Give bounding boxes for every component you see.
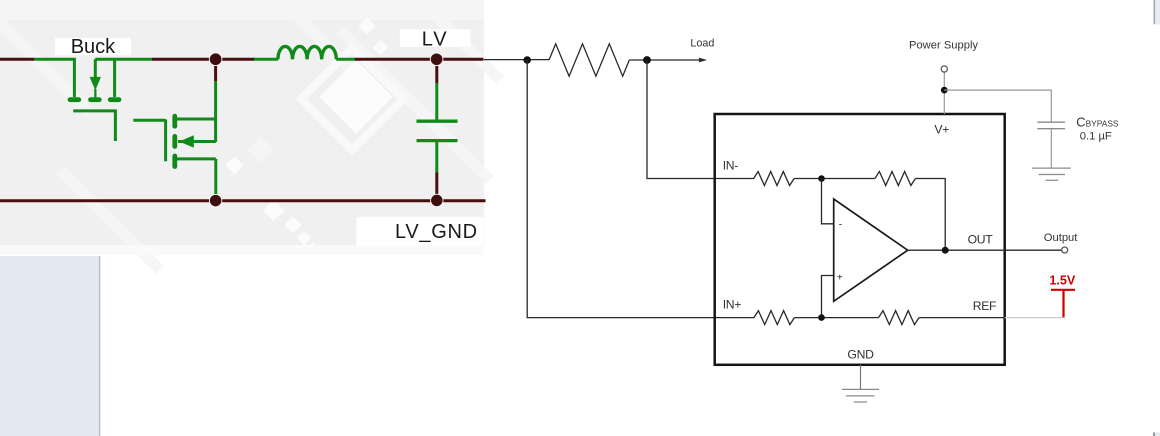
- wire: REF external light gray: [1005, 317, 1065, 319]
- svg-text:-: -: [839, 219, 842, 230]
- wire: node A to IN+: [527, 60, 754, 318]
- screenshot background: [0, 0, 500, 270]
- resistor Rshunt: [549, 44, 629, 76]
- capacitor CBYPASS: [1038, 122, 1066, 129]
- svg-text:0.1 µF: 0.1 µF: [1080, 131, 1112, 143]
- wire: top rail maroon segment 2: [152, 58, 255, 61]
- wire: V+ pin to power dot: [943, 72, 945, 114]
- ground: GND pin: [842, 389, 879, 402]
- wire: top rail maroon segment 1: [0, 58, 34, 61]
- terminal: Output open circle: [1062, 247, 1068, 253]
- wire: cap to gnd maroon: [435, 173, 438, 201]
- resistor R3 (IN+ input): [754, 311, 794, 325]
- capacitor C1: [417, 121, 458, 140]
- ground: bypass: [1032, 168, 1071, 180]
- junction: switch node top: [209, 53, 222, 66]
- wire: R2 to output corner: [915, 179, 945, 251]
- panel: bottom right scrollbar piece: [1153, 432, 1160, 436]
- wire: top rail green segment: [34, 59, 74, 97]
- svg-text:Load: Load: [690, 38, 714, 50]
- wire: thin link from LV to shunt: [484, 59, 549, 61]
- svg-text:IN+: IN+: [723, 298, 742, 312]
- wire: GND pin stub: [860, 365, 862, 390]
- svg-text:Power Supply: Power Supply: [909, 40, 978, 52]
- wire: LV to cap maroon: [435, 59, 438, 83]
- junction: OUT node: [942, 247, 949, 254]
- svg-text:C: C: [1076, 115, 1085, 130]
- junction node B (shunt right): [643, 56, 651, 64]
- svg-text:Output: Output: [1044, 232, 1078, 244]
- op-amp U1 triangle: [834, 199, 908, 301]
- label LV: [400, 28, 471, 50]
- junction: bottom rail right: [431, 194, 443, 206]
- wire: LV to cap green: [435, 83, 438, 120]
- svg-text:REF: REF: [973, 299, 996, 313]
- wire: R4 to REF pin: [919, 317, 1005, 319]
- wire: node B to IN-: [647, 60, 754, 179]
- wire: bypass cap to ground: [1050, 129, 1052, 168]
- wire: switch node vertical green: [214, 81, 217, 142]
- panel: top right scrollbar piece: [1154, 0, 1160, 24]
- wire: switch node vertical maroon: [214, 59, 217, 81]
- junction: power node: [941, 87, 948, 94]
- wire: output from op-amp to terminal: [908, 249, 1062, 251]
- wire: noninverting stub: [822, 276, 834, 318]
- junction: bottom rail left: [209, 194, 221, 206]
- junction: inverting input node: [818, 175, 825, 182]
- amplifier body box U1: [715, 114, 1005, 365]
- svg-text:OUT: OUT: [968, 233, 994, 247]
- wire: green lead out of inductor: [336, 58, 356, 61]
- label LV_GND: [357, 217, 484, 246]
- load arrowhead: [699, 58, 707, 63]
- svg-text:V+: V+: [934, 123, 949, 137]
- wire: R3 to noninverting node: [794, 317, 878, 319]
- label Buck: [55, 36, 131, 58]
- resistor R1 (IN- input): [754, 172, 794, 186]
- wire: power dot to bypass cap: [944, 90, 1051, 122]
- terminal: Power Supply open circle: [941, 66, 947, 72]
- inductor L1: [278, 46, 336, 59]
- svg-text:Buck: Buck: [71, 36, 116, 58]
- wire: top rail maroon to LV: [355, 58, 484, 61]
- panel: left blue strip: [0, 256, 100, 436]
- junction node A (shunt left): [523, 56, 531, 64]
- svg-text:LV: LV: [422, 28, 449, 50]
- svg-text:IN-: IN-: [723, 159, 739, 173]
- wire: green lead into inductor: [254, 58, 278, 61]
- resistor R4 (REF): [879, 311, 919, 325]
- wire: bottom rail maroon: [0, 199, 486, 202]
- junction: noninverting input node: [818, 314, 825, 321]
- wire: R1 to inverting node: [794, 178, 875, 180]
- source: 1.5V reference red: [1051, 290, 1075, 317]
- svg-text:BYPASS: BYPASS: [1086, 119, 1119, 129]
- transistor Q1 PMOS high-side: [73, 59, 115, 141]
- transistor Q2 NMOS low-side: [133, 119, 216, 198]
- wire: cap to gnd green: [435, 142, 438, 173]
- resistor R2 (feedback): [875, 172, 915, 186]
- svg-text:LV_GND: LV_GND: [395, 221, 478, 243]
- wire: shunt to load arrow: [629, 59, 699, 61]
- junction: LV node: [430, 53, 443, 66]
- svg-text:GND: GND: [847, 348, 874, 362]
- svg-text:1.5V: 1.5V: [1049, 273, 1076, 287]
- svg-text:+: +: [837, 272, 843, 283]
- wire: inverting stub: [822, 179, 834, 224]
